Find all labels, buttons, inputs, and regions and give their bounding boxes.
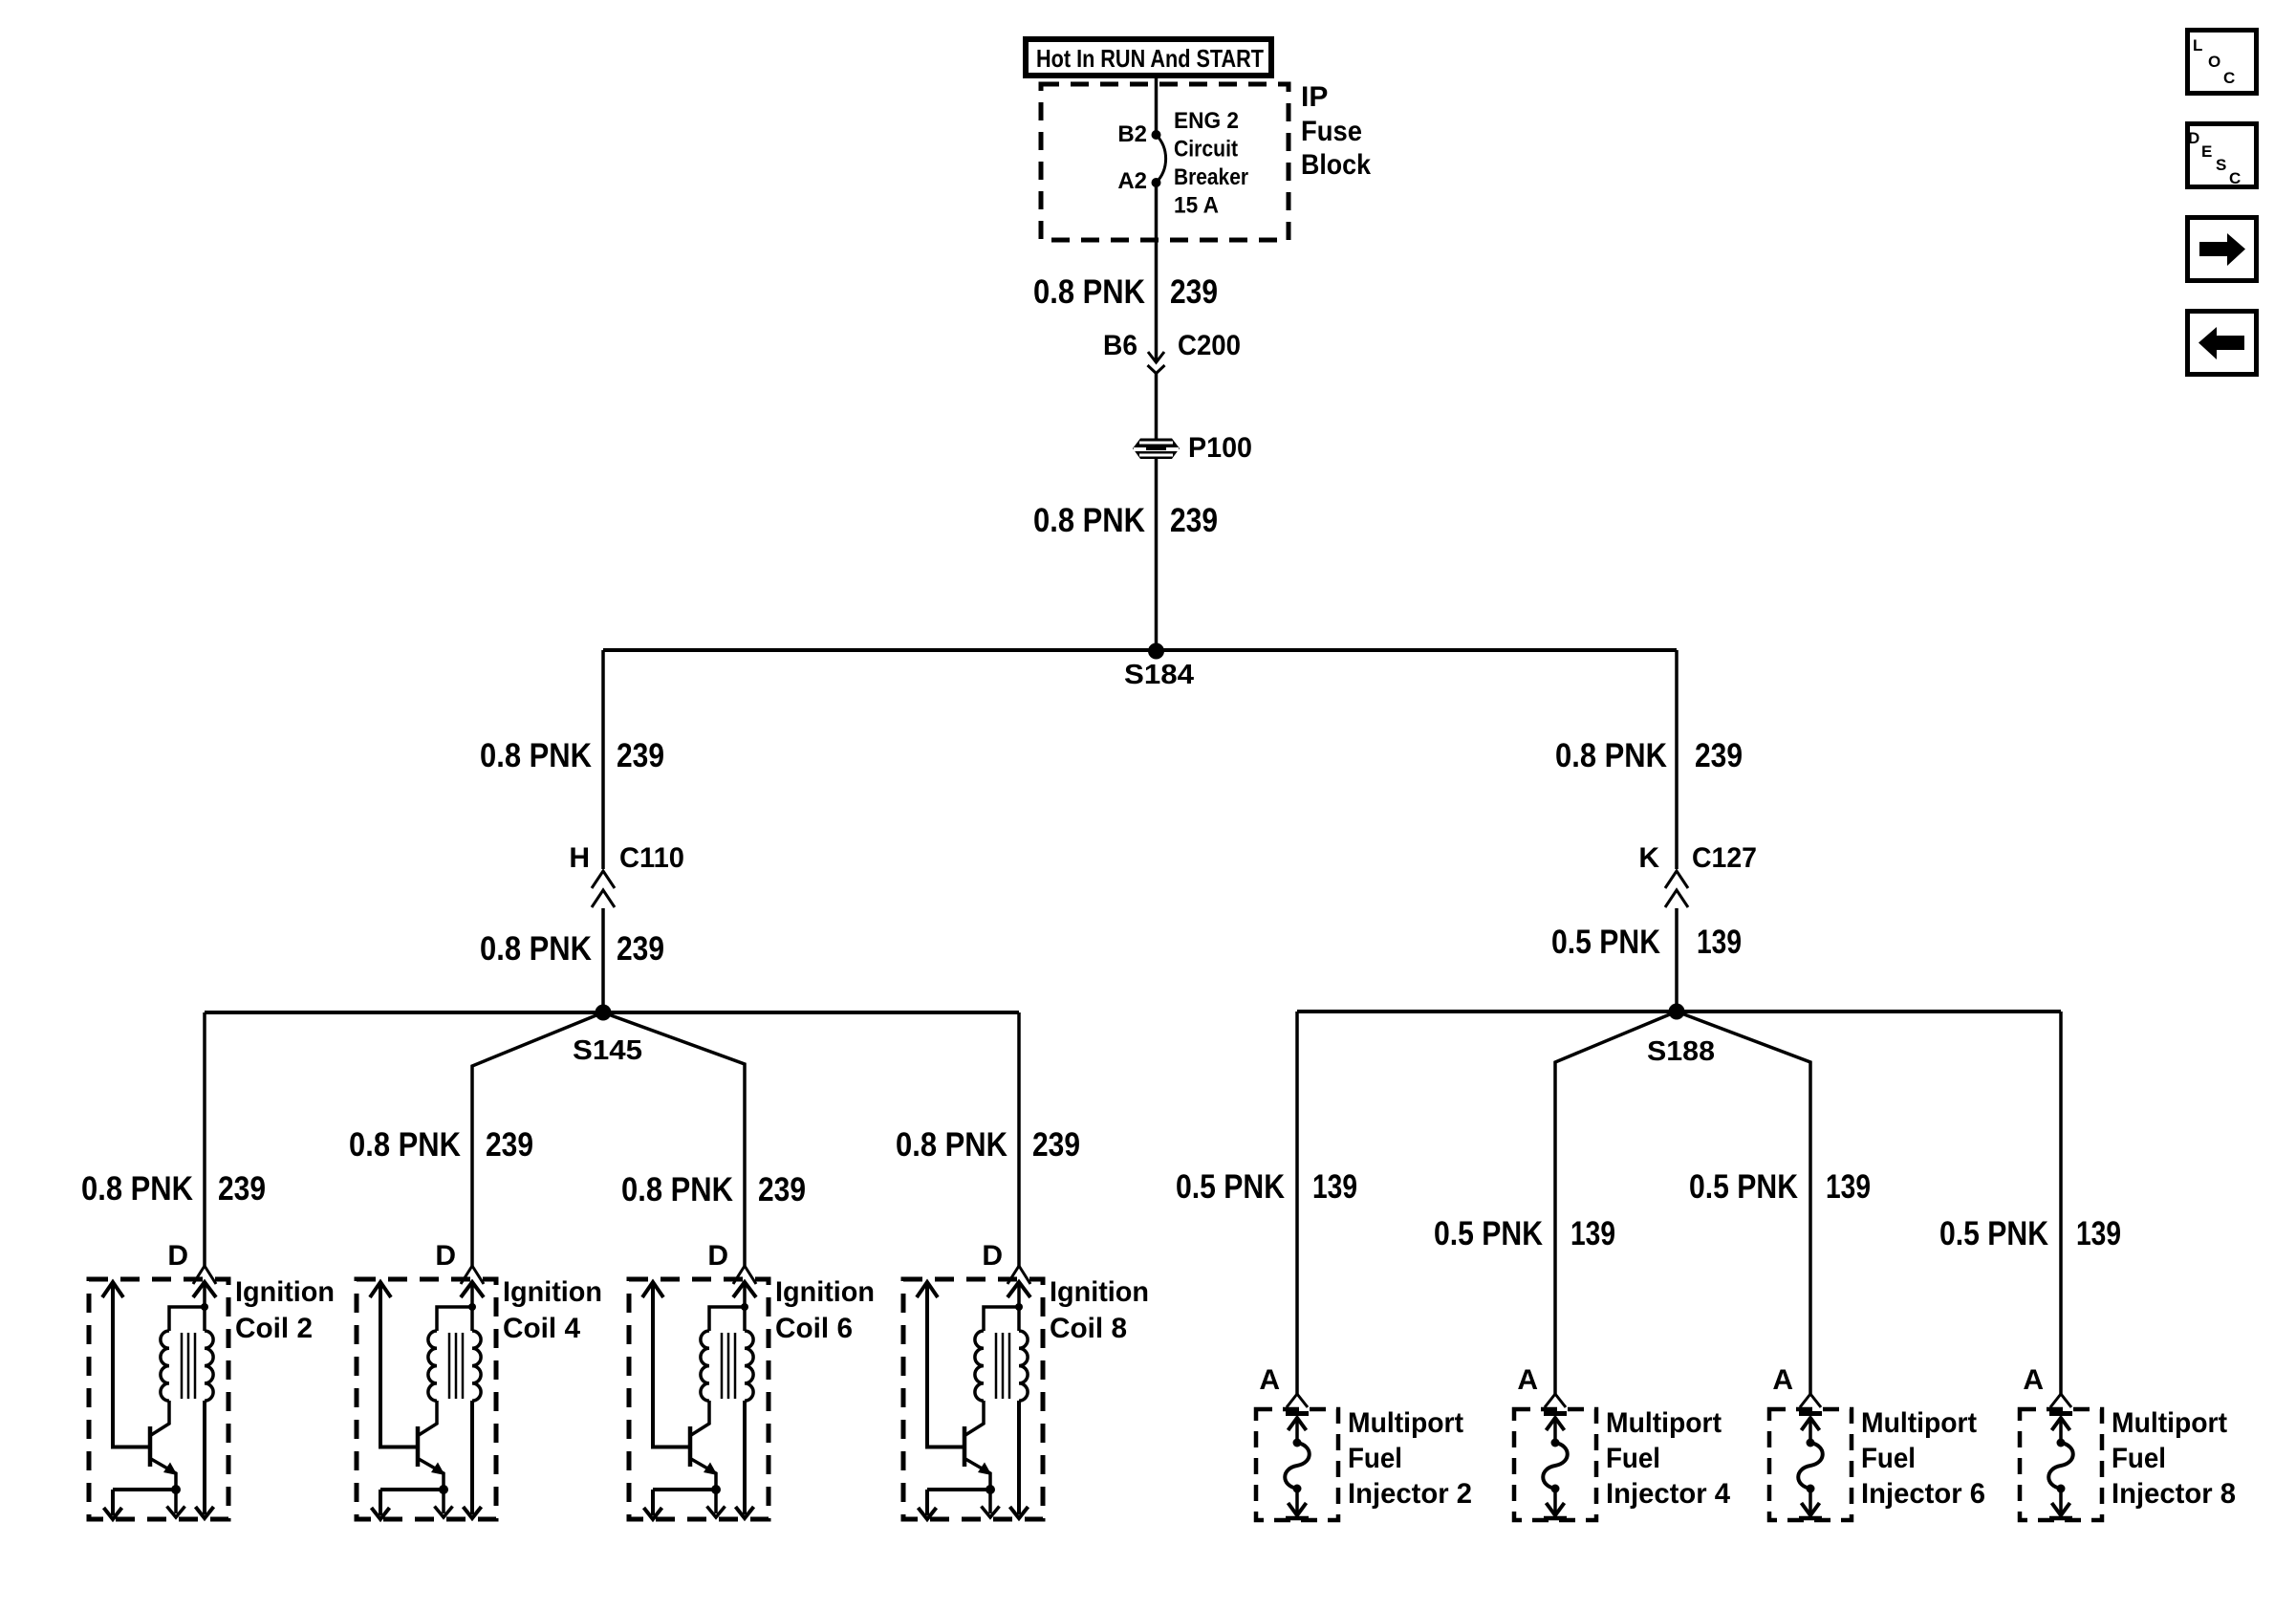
IP Fuse Block dashed box: [1041, 84, 1289, 240]
back arrow nav box: [2188, 312, 2257, 375]
wire S145 to ignition coil 4: [472, 1012, 603, 1267]
svg-text:239: 239: [1032, 1126, 1080, 1164]
wire label 0.5 PNK 139: [1551, 924, 1742, 961]
wire C110 to splice S145: [601, 908, 605, 1012]
Ignition Coil 4 label: [503, 1276, 602, 1344]
svg-text:139: 139: [1697, 924, 1742, 961]
wire S145 to ignition coil 6: [603, 1012, 745, 1267]
svg-text:0.8 PNK: 0.8 PNK: [81, 1170, 193, 1207]
svg-text:0.8 PNK: 0.8 PNK: [896, 1126, 1007, 1164]
svg-text:B2: B2: [1117, 121, 1147, 147]
svg-text:B6: B6: [1103, 330, 1137, 361]
svg-text:239: 239: [1695, 737, 1743, 774]
svg-text:Ignition: Ignition: [775, 1276, 875, 1308]
svg-text:A: A: [1517, 1364, 1538, 1396]
svg-text:0.5 PNK: 0.5 PNK: [1689, 1168, 1798, 1206]
svg-text:239: 239: [218, 1170, 266, 1207]
svg-text:239: 239: [486, 1126, 533, 1164]
wire C127 to splice S188: [1675, 908, 1679, 1012]
svg-text:Fuse: Fuse: [1301, 116, 1362, 147]
svg-text:Breaker: Breaker: [1174, 164, 1248, 190]
svg-text:Multiport: Multiport: [1606, 1407, 1722, 1439]
svg-text:Coil 2: Coil 2: [235, 1313, 313, 1344]
svg-text:O: O: [2208, 53, 2220, 71]
svg-text:15 A: 15 A: [1174, 193, 1219, 219]
svg-text:Fuel: Fuel: [1606, 1443, 1660, 1474]
Multiport Fuel Injector 6 label: [1861, 1407, 1985, 1510]
wire S188 to fuel injector 6: [1677, 1012, 1810, 1395]
ignition coil 6 (dashed box, transformer, driver transistor): [629, 1266, 769, 1519]
splice S184 junction dot: [1148, 643, 1164, 660]
svg-text:Coil 8: Coil 8: [1050, 1313, 1127, 1344]
wire label 0.8 PNK 239: [1033, 273, 1218, 311]
svg-text:0.8 PNK: 0.8 PNK: [349, 1126, 461, 1164]
svg-text:Block: Block: [1301, 149, 1371, 181]
wire S184 to C110: [601, 650, 605, 869]
wire label 0.8 PNK 239: [480, 737, 664, 774]
svg-text:139: 139: [2076, 1215, 2121, 1252]
Ignition Coil 6 label: [775, 1276, 875, 1344]
svg-text:0.8 PNK: 0.8 PNK: [480, 930, 592, 968]
wire S184 to C127: [1675, 650, 1679, 869]
forward arrow nav box: [2188, 218, 2257, 281]
svg-text:Injector 8: Injector 8: [2112, 1478, 2236, 1510]
svg-text:Circuit: Circuit: [1174, 137, 1238, 163]
wire from C200 to grommet P100: [1155, 373, 1159, 439]
svg-text:S188: S188: [1647, 1036, 1715, 1067]
svg-text:239: 239: [1170, 273, 1218, 311]
splice S145 bus wire: [205, 1011, 1019, 1014]
wire S145 to ignition coil 8: [1017, 1012, 1021, 1267]
LOC nav box: [2188, 31, 2257, 94]
svg-text:Ignition: Ignition: [235, 1276, 335, 1308]
IP Fuse Block label: [1301, 81, 1371, 181]
grommet P100: [1133, 439, 1180, 460]
svg-text:A2: A2: [1117, 168, 1147, 194]
svg-text:C: C: [2229, 169, 2241, 187]
svg-text:P100: P100: [1188, 432, 1252, 464]
wire S188 to fuel injector 8: [2059, 1012, 2063, 1395]
svg-text:0.5 PNK: 0.5 PNK: [1939, 1215, 2048, 1252]
svg-text:A: A: [1259, 1364, 1280, 1396]
svg-text:0.8 PNK: 0.8 PNK: [1033, 502, 1145, 539]
splice S188 bus wire: [1297, 1010, 2061, 1013]
svg-text:A: A: [1772, 1364, 1793, 1396]
svg-text:Fuel: Fuel: [2112, 1443, 2166, 1474]
svg-text:Ignition: Ignition: [503, 1276, 602, 1308]
connector C110: [592, 871, 615, 907]
wire label 0.5 PNK 139 (injector 4 feed): [1434, 1215, 1615, 1252]
svg-text:Hot In RUN And START: Hot In RUN And START: [1036, 44, 1264, 73]
connector C127: [1665, 871, 1688, 907]
svg-text:0.8 PNK: 0.8 PNK: [1555, 737, 1667, 774]
wire label 0.8 PNK 239: [1555, 737, 1743, 774]
svg-text:Injector 4: Injector 4: [1606, 1478, 1730, 1510]
wire label 0.8 PNK 239 (ignition coil 6 feed): [621, 1171, 806, 1208]
power source box "Hot In RUN And START": [1026, 39, 1271, 76]
svg-text:Injector 2: Injector 2: [1348, 1478, 1472, 1510]
wire label 0.8 PNK 239 (ignition coil 2 feed): [81, 1170, 266, 1207]
svg-text:D: D: [2188, 129, 2199, 147]
svg-text:L: L: [2193, 36, 2202, 54]
svg-text:Multiport: Multiport: [1861, 1407, 1977, 1439]
svg-text:139: 139: [1826, 1168, 1871, 1206]
circuit breaker value label: [1174, 108, 1248, 219]
wire S188 to fuel injector 4: [1555, 1012, 1677, 1395]
svg-text:239: 239: [1170, 502, 1218, 539]
wire label 0.8 PNK 239 (ignition coil 8 feed): [896, 1126, 1080, 1164]
splice S145 junction dot: [596, 1005, 612, 1021]
svg-text:S: S: [2216, 156, 2226, 174]
svg-text:0.8 PNK: 0.8 PNK: [480, 737, 592, 774]
wire label 0.8 PNK 239: [1033, 502, 1218, 539]
svg-text:C200: C200: [1178, 330, 1241, 361]
svg-text:0.5 PNK: 0.5 PNK: [1434, 1215, 1543, 1252]
svg-text:Multiport: Multiport: [2112, 1407, 2227, 1439]
wire 239 from fuse A2 down to connector C200: [1155, 183, 1159, 360]
svg-text:Ignition: Ignition: [1050, 1276, 1149, 1308]
svg-text:S184: S184: [1124, 660, 1194, 690]
DESC nav box: [2188, 124, 2257, 188]
wire label 0.8 PNK 239 (ignition coil 4 feed): [349, 1126, 533, 1164]
ignition coil 8 (dashed box, transformer, driver transistor): [903, 1266, 1043, 1519]
Multiport Fuel Injector 4 label: [1606, 1407, 1730, 1510]
svg-text:239: 239: [617, 930, 664, 968]
wire from P100 down to splice S184: [1155, 459, 1159, 651]
svg-text:C127: C127: [1692, 842, 1757, 874]
Ignition Coil 2 label: [235, 1276, 335, 1344]
svg-text:Injector 6: Injector 6: [1861, 1478, 1985, 1510]
circuit breaker ENG 2 (arc between terminals): [1152, 130, 1166, 187]
svg-text:C110: C110: [619, 842, 684, 874]
svg-text:D: D: [435, 1240, 456, 1272]
ignition coil 2 (dashed box, transformer, driver transistor): [89, 1266, 228, 1519]
ignition coil 4 (dashed box, transformer, driver transistor): [357, 1266, 496, 1519]
svg-text:H: H: [569, 842, 590, 874]
svg-text:239: 239: [758, 1171, 806, 1208]
svg-text:Multiport: Multiport: [1348, 1407, 1463, 1439]
wire S145 to ignition coil 2: [203, 1012, 206, 1267]
svg-text:D: D: [707, 1240, 728, 1272]
multiport fuel injector 4 (dashed box, solenoid coil): [1514, 1394, 1596, 1520]
Multiport Fuel Injector 2 label: [1348, 1407, 1472, 1510]
splice S188 junction dot: [1669, 1004, 1685, 1020]
svg-text:Coil 6: Coil 6: [775, 1313, 853, 1344]
svg-text:139: 139: [1312, 1168, 1357, 1206]
svg-text:Coil 4: Coil 4: [503, 1313, 580, 1344]
svg-text:239: 239: [617, 737, 664, 774]
svg-text:E: E: [2201, 142, 2212, 161]
svg-text:D: D: [167, 1240, 188, 1272]
multiport fuel injector 6 (dashed box, solenoid coil): [1769, 1394, 1852, 1520]
multiport fuel injector 8 (dashed box, solenoid coil): [2020, 1394, 2102, 1520]
svg-text:0.8 PNK: 0.8 PNK: [621, 1171, 733, 1208]
wire S188 to fuel injector 2: [1295, 1012, 1299, 1395]
splice S184 bus wire: [603, 648, 1677, 652]
svg-text:C: C: [2223, 69, 2235, 87]
svg-text:Fuel: Fuel: [1348, 1443, 1402, 1474]
svg-text:0.5 PNK: 0.5 PNK: [1551, 924, 1660, 961]
wire label 0.5 PNK 139 (injector 8 feed): [1939, 1215, 2121, 1252]
svg-text:139: 139: [1570, 1215, 1615, 1252]
wire from power box into fuse block: [1155, 76, 1159, 135]
svg-text:ENG 2: ENG 2: [1174, 108, 1239, 134]
connector C200 pin B6 (down arrow into chevron): [1148, 352, 1165, 374]
wire label 0.5 PNK 139 (injector 6 feed): [1689, 1168, 1871, 1206]
Multiport Fuel Injector 8 label: [2112, 1407, 2236, 1510]
svg-text:A: A: [2023, 1364, 2044, 1396]
multiport fuel injector 2 (dashed box, solenoid coil): [1256, 1394, 1338, 1520]
svg-text:0.8 PNK: 0.8 PNK: [1033, 273, 1145, 311]
wire label 0.8 PNK 239: [480, 930, 664, 968]
svg-text:S145: S145: [573, 1035, 642, 1066]
svg-text:IP: IP: [1301, 81, 1328, 113]
svg-text:D: D: [982, 1240, 1003, 1272]
Ignition Coil 8 label: [1050, 1276, 1149, 1344]
svg-text:0.5 PNK: 0.5 PNK: [1176, 1168, 1285, 1206]
svg-text:Fuel: Fuel: [1861, 1443, 1916, 1474]
wire label 0.5 PNK 139 (injector 2 feed): [1176, 1168, 1357, 1206]
svg-text:K: K: [1638, 842, 1659, 874]
